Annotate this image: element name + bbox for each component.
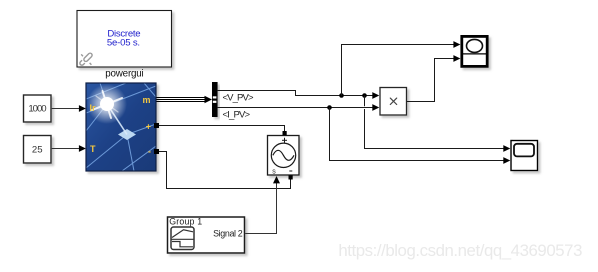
svg-text:5e-05 s.: 5e-05 s. — [107, 38, 140, 49]
svg-text:Ir: Ir — [90, 103, 97, 113]
wire V_PV from bus selector to product input 1 — [218, 91, 380, 99]
controlled current source block — [268, 131, 300, 180]
svg-text:s: s — [272, 168, 276, 175]
constant block Constant (1000) — [24, 95, 52, 122]
label <V_PV> — [223, 92, 254, 103]
PV array input label T — [90, 144, 96, 154]
wire Constant 25 to PV T input — [52, 145, 86, 152]
PV array output label m — [142, 95, 150, 105]
svg-text:T: T — [90, 144, 96, 154]
product block (multiply) — [380, 88, 407, 116]
svg-text:https://blog.csdn.net/qq_43690: https://blog.csdn.net/qq_43690573 — [338, 241, 582, 260]
wire I_PV branch to Scope1 input 2 — [330, 108, 511, 164]
scope block Scope1 — [511, 141, 538, 171]
powergui label — [105, 69, 143, 80]
wire V_PV branch to Scope1 input 1 — [365, 96, 511, 152]
PV array + port — [146, 122, 159, 132]
svg-text:powergui: powergui — [105, 69, 143, 80]
junction node I_PV branch to Scope1 — [327, 105, 332, 110]
wire Signal 2 to current source s input — [245, 176, 280, 234]
svg-text:Signal 2: Signal 2 — [213, 229, 243, 239]
svg-text:+: + — [146, 122, 151, 132]
bus wire m to bus selector — [157, 96, 213, 104]
constant block Constant1 (25) — [24, 136, 52, 164]
wire product output to Scope input 2 — [407, 55, 461, 101]
watermark — [338, 241, 582, 260]
wire V_PV branch to Scope input 1 — [342, 41, 461, 95]
svg-text:Group 1: Group 1 — [169, 217, 202, 227]
PV array - port — [148, 147, 159, 157]
svg-text:<I_PV>: <I_PV> — [223, 109, 251, 120]
svg-text:1000: 1000 — [28, 104, 46, 115]
wire Constant 1000 to PV Ir input — [52, 105, 86, 112]
svg-text:<V_PV>: <V_PV> — [223, 92, 254, 103]
svg-text:25: 25 — [32, 145, 43, 156]
junction node V_PV branch to Scope — [339, 93, 344, 98]
PV array input label Ir — [90, 103, 97, 113]
scope block Scope — [462, 36, 487, 66]
svg-text:m: m — [142, 95, 150, 105]
wire PV - output to current source - terminal — [159, 152, 291, 189]
signal builder block (Group 1 / Signal 2) — [168, 217, 245, 253]
powergui block — [77, 11, 172, 68]
label <I_PV> — [223, 109, 251, 120]
junction node V_PV branch to Scope1 — [362, 93, 367, 98]
wire PV + output to current source + terminal — [159, 126, 285, 132]
svg-text:-: - — [148, 147, 151, 157]
bus selector block — [212, 82, 218, 117]
PV array block — [86, 83, 156, 171]
wire I_PV from bus selector to product input 2 — [218, 104, 380, 111]
